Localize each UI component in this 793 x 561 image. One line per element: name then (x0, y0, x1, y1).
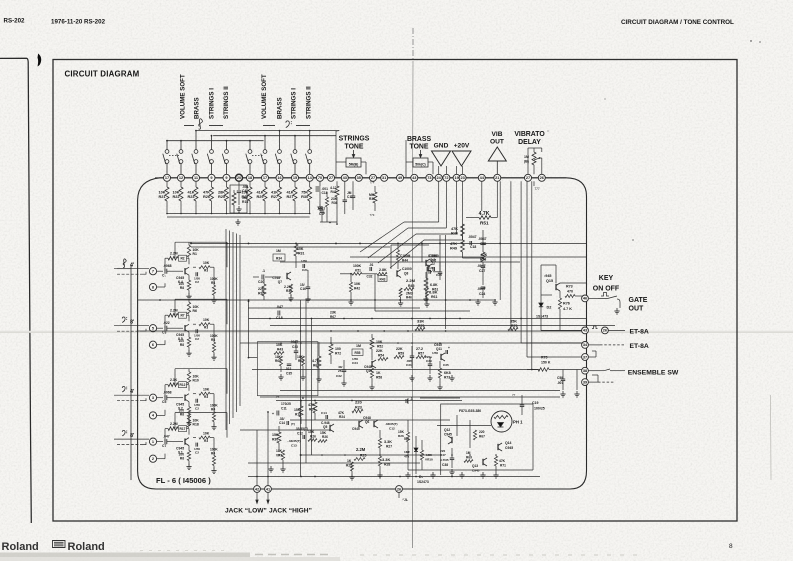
svg-text:R42: R42 (354, 287, 360, 291)
svg-text:75K: 75K (301, 191, 308, 195)
svg-text:R18: R18 (193, 423, 199, 427)
svg-text:Q12: Q12 (444, 428, 450, 432)
svg-text:K51: K51 (355, 269, 361, 273)
svg-text:17: 17 (263, 176, 267, 180)
svg-text:72: 72 (444, 176, 448, 180)
svg-text:.0047: .0047 (290, 340, 298, 344)
svg-text:6K8: 6K8 (444, 371, 451, 375)
svg-text:C35: C35 (286, 372, 292, 376)
svg-text:C14: C14 (321, 411, 327, 415)
svg-text:C11: C11 (281, 407, 287, 411)
svg-text:Roland: Roland (68, 541, 105, 553)
svg-text:100: 100 (335, 347, 341, 351)
svg-text:STRINGS: STRINGS (339, 136, 370, 143)
svg-text:STRINGS I: STRINGS I (209, 88, 216, 119)
svg-text:R58: R58 (376, 376, 382, 380)
svg-text:R8: R8 (180, 286, 184, 290)
svg-text:R51: R51 (480, 221, 489, 226)
svg-text:VIB: VIB (492, 131, 503, 138)
svg-text:73: 73 (427, 176, 431, 180)
svg-text:R8: R8 (180, 413, 184, 417)
svg-text:C16: C16 (300, 287, 306, 291)
svg-text:ENSEMBLE SW: ENSEMBLE SW (628, 370, 679, 377)
svg-text:DELAY: DELAY (518, 139, 541, 146)
svg-text:16: 16 (277, 176, 281, 180)
svg-text:17: 17 (165, 176, 169, 180)
svg-text:OUT: OUT (490, 139, 504, 146)
svg-text:R59: R59 (398, 352, 404, 356)
svg-text:2.8K: 2.8K (379, 268, 387, 272)
svg-text:R54: R54 (378, 354, 384, 358)
svg-text:.0068: .0068 (163, 264, 172, 268)
svg-text:37: 37 (583, 355, 587, 359)
svg-text:R22: R22 (172, 195, 179, 199)
svg-text:C5: C5 (162, 400, 166, 404)
svg-text:C18: C18 (276, 316, 283, 320)
svg-text:C33: C33 (292, 345, 298, 349)
svg-text:Q14: Q14 (505, 441, 512, 445)
svg-text:1/50: 1/50 (301, 259, 307, 263)
svg-text:C12: C12 (389, 427, 395, 431)
svg-text:77F: 77F (370, 181, 375, 185)
svg-text:1S1473: 1S1473 (536, 315, 548, 319)
svg-text:C945: C945 (505, 446, 513, 450)
svg-text:R46: R46 (451, 232, 458, 236)
svg-text:39: 39 (583, 380, 587, 384)
svg-text:2.2M: 2.2M (170, 309, 178, 313)
svg-text:Q5: Q5 (323, 425, 327, 429)
svg-text:R1: R1 (193, 252, 197, 256)
svg-text:C24: C24 (479, 292, 485, 296)
svg-text:R3: R3 (204, 326, 208, 330)
svg-text:C14: C14 (279, 421, 285, 425)
svg-text:STRINGS I: STRINGS I (291, 88, 298, 119)
svg-text:4.7K: 4.7K (479, 211, 490, 217)
svg-text:.022: .022 (163, 321, 170, 325)
svg-text:8: 8 (729, 543, 733, 550)
svg-text:BRASS: BRASS (277, 97, 284, 119)
svg-text:JACK “LOW”: JACK “LOW” (225, 508, 267, 515)
svg-text:20: 20 (237, 176, 241, 180)
svg-text:R67: R67 (479, 435, 485, 439)
svg-text:JL: JL (404, 498, 408, 502)
svg-text:Q6: Q6 (365, 420, 369, 424)
svg-text:19: 19 (454, 176, 458, 180)
svg-text:C32: C32 (367, 275, 373, 279)
svg-text:2: 2 (152, 457, 154, 461)
svg-text:R24: R24 (339, 415, 345, 419)
svg-text:R6: R6 (193, 309, 197, 313)
svg-text:C945: C945 (444, 433, 452, 437)
svg-text:8: 8 (302, 396, 304, 400)
svg-text:VOLUME SOFT: VOLUME SOFT (180, 74, 187, 119)
svg-text:12: 12 (179, 176, 183, 180)
svg-text:+: + (448, 346, 450, 350)
svg-text:C20: C20 (258, 280, 264, 284)
svg-text:.047: .047 (163, 435, 170, 439)
svg-text:100K: 100K (353, 264, 362, 268)
svg-text:R8: R8 (180, 457, 184, 461)
svg-text:.022: .022 (285, 367, 291, 371)
svg-text:R26: R26 (310, 435, 316, 439)
svg-text:C21: C21 (302, 268, 308, 272)
svg-text:15K: 15K (308, 430, 315, 434)
svg-text:VOLUME SOFT: VOLUME SOFT (261, 74, 268, 119)
svg-text:R69: R69 (466, 456, 472, 460)
svg-text:26: 26 (397, 487, 401, 491)
svg-text:STRINGS II: STRINGS II (306, 86, 313, 119)
svg-text:49: 49 (398, 176, 402, 180)
svg-text:47K: 47K (451, 227, 458, 231)
svg-text:2.2M: 2.2M (406, 278, 416, 283)
svg-text:R52: R52 (377, 345, 383, 349)
svg-text:1M: 1M (276, 249, 281, 253)
svg-text:C1000: C1000 (402, 267, 412, 271)
svg-text:R67: R67 (330, 315, 336, 319)
svg-text:41K: 41K (286, 191, 293, 195)
svg-text:.33/35(T): .33/35(T) (385, 422, 398, 426)
svg-text:1/: 1/ (432, 262, 435, 266)
svg-text:R36: R36 (332, 201, 338, 205)
svg-text:2.2M: 2.2M (170, 252, 178, 256)
svg-text:1S2473: 1S2473 (417, 480, 429, 484)
svg-text:23: 23 (460, 176, 464, 180)
svg-text:100/25: 100/25 (534, 407, 545, 411)
svg-text:TONE: TONE (344, 144, 363, 151)
svg-text:R4: R4 (211, 452, 215, 456)
svg-text:3: 3 (152, 396, 154, 400)
svg-text:BRASS: BRASS (407, 136, 432, 143)
svg-text:777: 777 (534, 187, 540, 191)
svg-text:C32: C32 (336, 374, 342, 378)
svg-text:Q15: Q15 (546, 279, 553, 283)
svg-text:FL - 6 ( I45006 ): FL - 6 ( I45006 ) (156, 476, 211, 485)
svg-text:27: 27 (329, 176, 333, 180)
svg-text:R8: R8 (180, 343, 184, 347)
svg-text:VIBRATO: VIBRATO (514, 131, 545, 138)
svg-text:6.8K: 6.8K (430, 283, 438, 287)
svg-text:R27: R27 (271, 195, 278, 199)
svg-text:R2: R2 (180, 257, 184, 261)
svg-text:10K: 10K (376, 340, 383, 344)
svg-text:3.3K: 3.3K (382, 457, 390, 462)
svg-text:C100M: C100M (400, 254, 411, 258)
svg-text:35K: 35K (510, 320, 517, 324)
svg-text:CIRCUIT DIAGRAM: CIRCUIT DIAGRAM (65, 70, 140, 79)
svg-text:C39: C39 (426, 359, 432, 363)
svg-text:C34: C34 (352, 361, 358, 365)
svg-text:1976-11-20 RS-202: 1976-11-20 RS-202 (51, 19, 106, 26)
svg-text:R61: R61 (432, 288, 438, 292)
svg-text:R7: R7 (180, 314, 184, 318)
svg-text:R30: R30 (301, 195, 308, 199)
svg-text:27: 27 (371, 176, 375, 180)
svg-text:28K: 28K (218, 191, 225, 195)
svg-text:R71: R71 (500, 464, 506, 468)
svg-text:R73: R73 (566, 285, 573, 289)
svg-text:C27: C27 (479, 269, 485, 273)
svg-text:R27: R27 (386, 445, 392, 449)
svg-text:R26: R26 (203, 195, 210, 199)
svg-text:27: 27 (526, 176, 530, 180)
svg-text:77: 77 (276, 395, 280, 399)
svg-text:R12: R12 (180, 383, 186, 387)
svg-text:.0047: .0047 (468, 235, 477, 239)
svg-text:2.2M: 2.2M (170, 422, 178, 426)
svg-text:R57: R57 (418, 352, 424, 356)
svg-text:R43: R43 (380, 277, 386, 281)
svg-text:470: 470 (567, 289, 573, 293)
svg-text:42: 42 (255, 487, 259, 491)
svg-text:OUT: OUT (629, 306, 645, 313)
svg-text:22K: 22K (396, 347, 403, 351)
svg-text:1K: 1K (347, 459, 352, 463)
svg-text:C38: C38 (442, 463, 448, 467)
svg-text:C2: C2 (195, 280, 199, 284)
svg-text:220: 220 (355, 400, 363, 405)
svg-text:.1: .1 (262, 269, 265, 273)
svg-text:R75: R75 (541, 356, 547, 360)
svg-text:GATE: GATE (629, 297, 648, 304)
svg-text:220: 220 (479, 430, 485, 434)
svg-text:1/50: 1/50 (432, 351, 438, 355)
svg-text:+20V: +20V (454, 143, 470, 150)
svg-text:R17: R17 (180, 427, 186, 431)
svg-text:77F: 77F (370, 213, 375, 217)
svg-text:R23: R23 (187, 195, 194, 199)
svg-text:41K: 41K (187, 191, 194, 195)
svg-text:C2: C2 (195, 337, 199, 341)
svg-text:-.33/35(T): -.33/35(T) (287, 439, 301, 443)
svg-text:70: 70 (318, 176, 322, 180)
svg-text:JACK “HIGH”: JACK “HIGH” (269, 508, 312, 515)
svg-text:Roland: Roland (2, 541, 39, 553)
svg-text:R4: R4 (211, 408, 215, 412)
svg-text:1K: 1K (376, 371, 381, 375)
svg-text:3.3K: 3.3K (384, 440, 392, 444)
svg-text:.01: .01 (369, 263, 374, 267)
svg-text:R28: R28 (384, 463, 390, 467)
svg-text:R31: R31 (298, 252, 304, 256)
svg-text:R27: R27 (286, 195, 293, 199)
svg-text:.0047: .0047 (478, 237, 487, 241)
svg-text:1M: 1M (356, 344, 361, 348)
svg-text:2.2M: 2.2M (356, 447, 366, 452)
svg-text:33K: 33K (417, 319, 424, 324)
svg-text:R3: R3 (204, 439, 208, 443)
svg-text:ET-8A: ET-8A (630, 329, 649, 336)
svg-text:.0068: .0068 (163, 391, 172, 395)
svg-text:C19: C19 (532, 401, 538, 405)
svg-text:R16: R16 (242, 200, 248, 204)
svg-text:170/25: 170/25 (281, 402, 291, 406)
svg-text:2.3K: 2.3K (170, 378, 178, 382)
svg-text:GND: GND (434, 143, 449, 150)
svg-text:R10: R10 (193, 379, 199, 383)
svg-text:43: 43 (412, 176, 416, 180)
svg-text:R55: R55 (355, 351, 361, 355)
svg-text:R26: R26 (322, 435, 328, 439)
svg-text:C31: C31 (406, 363, 412, 367)
svg-text:D2: D2 (547, 306, 552, 310)
svg-text:.33/35(T): .33/35(T) (295, 427, 308, 431)
svg-text:+: + (272, 412, 274, 416)
svg-text:C945: C945 (472, 469, 480, 473)
svg-text:C35: C35 (443, 363, 449, 367)
svg-text:10K: 10K (203, 432, 210, 436)
svg-text:.001: .001 (557, 381, 563, 385)
svg-text:9: 9 (225, 176, 227, 180)
svg-text:7: 7 (152, 270, 154, 274)
svg-text:R46: R46 (406, 296, 412, 300)
svg-text:10K: 10K (158, 191, 165, 195)
svg-text:.1: .1 (410, 397, 413, 401)
svg-text:150 K: 150 K (541, 361, 551, 365)
svg-text:VR10: VR10 (425, 458, 433, 462)
svg-text:PH 1: PH 1 (513, 420, 523, 425)
svg-text:1MF: 1MF (404, 450, 410, 454)
svg-text:43: 43 (343, 176, 347, 180)
svg-text:77: 77 (512, 393, 516, 397)
svg-text:R34: R34 (276, 257, 282, 261)
svg-text:47K: 47K (499, 459, 506, 463)
svg-text:41K: 41K (271, 191, 278, 195)
svg-text:.0047: .0047 (317, 207, 325, 211)
svg-text:BRASS: BRASS (194, 97, 201, 119)
svg-text:10K: 10K (354, 282, 361, 286)
svg-text:R3: R3 (204, 395, 208, 399)
svg-text:C2: C2 (195, 451, 199, 455)
svg-text:10K: 10K (276, 343, 283, 347)
svg-text:C18: C18 (470, 245, 476, 249)
svg-text:46: 46 (583, 297, 587, 301)
svg-text:50k(C): 50k(C) (415, 162, 425, 166)
svg-text:Q8: Q8 (404, 272, 408, 276)
svg-text:R4: R4 (211, 338, 215, 342)
svg-text:R29: R29 (256, 195, 263, 199)
svg-text:26: 26 (603, 329, 607, 333)
svg-text:ON OFF: ON OFF (593, 286, 620, 293)
svg-text:4.7/35: 4.7/35 (440, 458, 449, 462)
svg-text:R65: R65 (313, 364, 319, 368)
svg-text:Q7: Q7 (278, 280, 282, 284)
svg-text:9: 9 (210, 176, 212, 180)
svg-text:27.2: 27.2 (416, 347, 423, 351)
svg-text:STRINGS II: STRINGS II (223, 86, 230, 119)
svg-text:25: 25 (338, 369, 342, 373)
svg-text:C₁: C₁ (162, 274, 166, 278)
svg-text:10K: 10K (203, 261, 210, 265)
svg-text:10K: 10K (203, 388, 210, 392)
svg-text:C2: C2 (195, 407, 199, 411)
svg-text:R61: R61 (431, 295, 437, 299)
svg-text:.047: .047 (276, 305, 283, 309)
svg-text:C13: C13 (291, 444, 297, 448)
svg-text:43: 43 (583, 329, 587, 333)
svg-text:R3: R3 (204, 269, 208, 273)
svg-text:TONE: TONE (409, 144, 428, 151)
svg-text:R43: R43 (277, 348, 283, 352)
svg-text:C7: C7 (162, 444, 166, 448)
svg-text:6: 6 (152, 343, 154, 347)
svg-text:R44: R44 (402, 259, 408, 263)
svg-text:Q13: Q13 (472, 464, 478, 468)
svg-text:10K: 10K (172, 191, 179, 195)
svg-text:10K: 10K (203, 318, 210, 322)
svg-text:KEY: KEY (599, 275, 614, 282)
svg-text:47K: 47K (450, 242, 457, 246)
svg-text:ET-8A: ET-8A (630, 343, 649, 350)
svg-text:R45: R45 (408, 284, 414, 288)
svg-text:R72: R72 (335, 352, 341, 356)
svg-text:R25: R25 (218, 195, 226, 199)
svg-text:F873-G35-380: F873-G35-380 (459, 409, 481, 413)
svg-text::945: :945 (544, 274, 551, 278)
svg-text:CIRCUIT DIAGRAM / TONE CONTROL: CIRCUIT DIAGRAM / TONE CONTROL (621, 19, 734, 26)
svg-text:R4: R4 (211, 281, 215, 285)
svg-text:41K: 41K (256, 191, 263, 195)
svg-text:R73: R73 (444, 376, 450, 380)
svg-text:26: 26 (540, 176, 544, 180)
svg-text:22K: 22K (376, 349, 383, 353)
svg-text:R21: R21 (158, 195, 166, 199)
svg-text:C4: C4 (242, 189, 246, 193)
svg-text:C945: C945 (352, 427, 360, 431)
svg-text:C12: C12 (297, 432, 303, 436)
svg-text:47K: 47K (203, 191, 210, 195)
svg-text:R49: R49 (450, 247, 457, 251)
svg-text:4.7 K: 4.7 K (563, 307, 572, 311)
svg-text:RS-202: RS-202 (4, 18, 26, 25)
svg-text:(T): (T) (291, 422, 295, 426)
svg-text:R76: R76 (563, 302, 570, 306)
svg-text:5M(B): 5M(B) (349, 162, 358, 166)
svg-text:D₁: D₁ (419, 475, 424, 479)
